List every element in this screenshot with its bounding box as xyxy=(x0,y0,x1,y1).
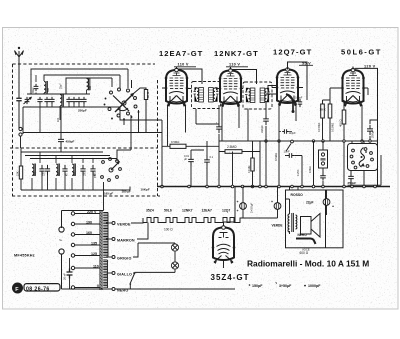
wire band switch bottom drops xyxy=(124,110,139,132)
svg-text:250pF: 250pF xyxy=(78,109,87,113)
electrolytic C 2x50uF unit b xyxy=(274,203,281,210)
wire tone cap branch xyxy=(370,120,378,141)
svg-text:100pF: 100pF xyxy=(295,96,303,100)
wire right column to socket xyxy=(380,155,382,185)
legend 1000pF xyxy=(304,285,306,287)
svg-text:20 nF: 20 nF xyxy=(63,273,67,280)
wire af cap drop xyxy=(206,141,208,187)
coil 500 rf upper second xyxy=(87,79,89,90)
svg-text:GRIGIO: GRIGIO xyxy=(117,256,132,260)
volume potentiometer 0.5M body xyxy=(278,141,280,187)
svg-text:150pF: 150pF xyxy=(252,284,263,288)
svg-text:VERDE: VERDE xyxy=(272,224,283,228)
wire rf top rail xyxy=(27,93,90,95)
capacitor 100pF detector xyxy=(298,99,302,107)
capacitor 450pF padder xyxy=(90,165,95,175)
wire screen cap drop xyxy=(266,94,277,187)
svg-text:35Z4: 35Z4 xyxy=(146,209,154,213)
wire 450pF connections xyxy=(60,107,62,152)
capacitor 39pF antenna coupling xyxy=(34,84,39,91)
svg-text:100: 100 xyxy=(57,117,60,122)
svg-text:GIALLO: GIALLO xyxy=(117,272,132,276)
speaker magnet xyxy=(301,217,312,235)
dashed shield box tuner bottom xyxy=(12,195,160,197)
wire rf nested rail 1 xyxy=(31,69,128,94)
wire tone pot leads xyxy=(322,141,324,174)
primary tap leads xyxy=(75,213,101,215)
wire left column osc xyxy=(20,148,22,190)
output transformer secondary winding xyxy=(296,215,297,229)
speaker voice coil thick lead xyxy=(296,239,316,244)
svg-text:12EA7: 12EA7 xyxy=(202,209,212,213)
svg-text:μF: μF xyxy=(184,157,187,161)
wire line filter xyxy=(69,258,71,289)
svg-text:+: + xyxy=(237,200,239,204)
resistor 0.15M vertical b xyxy=(328,104,332,118)
capacitor 25KpF tone xyxy=(367,125,373,135)
pilot lamp 1 xyxy=(171,244,178,251)
coil L2 antenna secondary xyxy=(60,95,62,106)
IF transformer T1 shield box xyxy=(192,82,221,109)
output transformer T3 primary winding xyxy=(288,214,290,232)
svg-text:ROSSO: ROSSO xyxy=(291,193,304,197)
dashed shield box tuner left xyxy=(12,64,14,196)
wire IF2 secondary drop xyxy=(247,109,249,142)
capacitor rf e xyxy=(71,97,76,104)
heater chain resistive line xyxy=(143,218,243,223)
svg-text:90 Ω: 90 Ω xyxy=(146,92,150,98)
capacitor 33KpF screen xyxy=(263,115,269,125)
terminal T xyxy=(19,133,22,136)
wire 35Z4 plate feed xyxy=(224,187,236,227)
wire af coupling leads xyxy=(285,156,302,187)
capacitor 10nF af coupling xyxy=(287,153,294,158)
svg-text:10KpF: 10KpF xyxy=(141,188,150,192)
mains plug pins xyxy=(59,227,64,232)
resistor 90 ohm grid stopper xyxy=(144,90,147,100)
tube V3 12Q7-GT xyxy=(276,66,300,106)
dashed shield divider vertical xyxy=(157,80,159,196)
svg-text:2×50μF: 2×50μF xyxy=(249,203,253,213)
wire rf row drops below xyxy=(40,104,84,133)
svg-text:50L6: 50L6 xyxy=(164,209,172,213)
wire diode load connections xyxy=(219,141,260,187)
svg-text:160: 160 xyxy=(86,231,92,235)
wire mid rail y141 xyxy=(219,140,378,142)
resistor 0.5M grid leak V1 xyxy=(170,144,186,148)
capacitor 180pF xyxy=(80,165,85,175)
capacitor osc trim xyxy=(62,165,67,175)
electrolytic 22uF xyxy=(323,199,330,206)
wire band switch to grid xyxy=(133,88,146,132)
wire avc line from V3 xyxy=(268,86,277,102)
svg-text:12EA7-GT: 12EA7-GT xyxy=(159,49,203,58)
svg-text:165 pF: 165 pF xyxy=(104,192,113,196)
svg-text:250pF: 250pF xyxy=(348,181,357,185)
wire osc top rails xyxy=(21,152,117,159)
wire V4 top cap feed and right rail xyxy=(353,67,378,187)
capacitor 450pF tuning series xyxy=(58,135,64,145)
capacitor rf c xyxy=(49,97,54,104)
svg-text:+: + xyxy=(237,209,239,213)
coil L6 osc tickler xyxy=(72,164,74,175)
trimmer capacitor antenna input xyxy=(25,97,30,104)
svg-text:500: 500 xyxy=(89,85,92,90)
wire v4 grid return xyxy=(313,141,315,187)
svg-text:110 V: 110 V xyxy=(229,63,240,67)
publisher logo roundel xyxy=(13,283,23,293)
speaker assembly box xyxy=(286,190,344,248)
svg-text:35Z4-GT: 35Z4-GT xyxy=(211,273,250,282)
svg-text:500: 500 xyxy=(47,87,50,92)
svg-text:VERDE: VERDE xyxy=(117,222,131,226)
pilot lamp branch wire xyxy=(135,243,176,272)
resistor 0.15M vertical a xyxy=(321,104,325,118)
svg-text:MARRON: MARRON xyxy=(117,238,135,242)
wire rf upper pair drops xyxy=(36,75,44,94)
capacitor 0.1uF af xyxy=(204,156,210,166)
wire V1 electrode drops xyxy=(168,105,186,146)
svg-text:450pF: 450pF xyxy=(66,139,75,143)
terminal NERO xyxy=(112,288,115,291)
coil 500 antenna primary xyxy=(44,82,46,93)
resistor 22K oscillator xyxy=(19,166,22,179)
publisher logo cartouche xyxy=(24,284,60,291)
wire tuner to transformer feed xyxy=(103,182,105,211)
volume pot wiper xyxy=(291,140,294,143)
terminal GIALLO xyxy=(112,272,115,275)
svg-text:+: + xyxy=(271,200,273,204)
capacitor rf b xyxy=(44,97,49,104)
phono socket rear panel xyxy=(348,144,378,171)
capacitor 10KpF cathode v2 xyxy=(216,123,222,133)
wire long rail y132 xyxy=(23,132,162,134)
svg-text:12Q7-GT: 12Q7-GT xyxy=(273,48,312,57)
wire socket bottom leads xyxy=(348,171,382,187)
wire osc rail drops xyxy=(40,152,93,163)
wire 22uF connections xyxy=(326,190,328,215)
svg-text:12NK7: 12NK7 xyxy=(182,209,193,213)
wire marron run xyxy=(137,223,148,240)
wire taps to terminals column xyxy=(61,211,63,229)
svg-text:135: 135 xyxy=(91,241,97,245)
svg-text:0.25K: 0.25K xyxy=(297,169,300,176)
resistor 400 ohm cathode xyxy=(342,110,346,124)
svg-text:180 pF: 180 pF xyxy=(122,190,132,194)
wire V3 electrode drops xyxy=(279,104,296,141)
capacitor 110pF detector xyxy=(282,129,289,133)
pilot lamp 2 xyxy=(171,262,178,269)
tube V4 50L6-GT xyxy=(341,67,365,107)
wire rf to if stage xyxy=(120,107,162,132)
svg-text:100 Ω: 100 Ω xyxy=(164,228,173,232)
wire rf bottom rail xyxy=(23,106,120,108)
svg-text:110: 110 xyxy=(93,264,99,268)
wire tuning line vertical xyxy=(131,80,133,88)
wire v4 cathode drop xyxy=(343,100,345,110)
wire main bus heavy xyxy=(157,186,390,188)
coil L4 osc primary xyxy=(32,164,34,175)
wire V4 electrode drops xyxy=(361,105,363,141)
capacitor tone bottom xyxy=(320,174,326,181)
wire IF1 secondary drop xyxy=(196,109,219,124)
svg-text:22K: 22K xyxy=(16,171,20,176)
speaker cone xyxy=(311,214,320,238)
svg-text:0.15MΩ: 0.15MΩ xyxy=(331,123,335,132)
capacitor rf d xyxy=(66,97,71,104)
tone potentiometer xyxy=(319,150,328,168)
primary winding stack xyxy=(103,213,108,258)
svg-text:~: ~ xyxy=(59,238,62,244)
wire mains lower lead xyxy=(62,254,116,289)
capacitor 250pF rf xyxy=(81,97,86,104)
svg-text:190: 190 xyxy=(86,220,92,224)
svg-text:0: 0 xyxy=(97,284,99,288)
wire junction antenna to rf rail xyxy=(22,107,24,134)
wire filter cap links xyxy=(243,187,278,203)
terminal MARRON xyxy=(112,238,115,241)
svg-text:600 Ω: 600 Ω xyxy=(300,251,309,255)
band switch S1a rotor and contacts xyxy=(104,88,140,120)
wire tube side stubs xyxy=(162,88,368,101)
svg-text:0.5MΩ: 0.5MΩ xyxy=(274,153,278,161)
svg-text:0.5MΩ: 0.5MΩ xyxy=(171,140,179,144)
svg-text:0.1MΩ: 0.1MΩ xyxy=(248,165,251,173)
primary tap terminals xyxy=(71,212,74,215)
wire osc bottom drop xyxy=(21,187,130,191)
terminal GRIGIO xyxy=(112,256,115,259)
svg-text:1000pF: 1000pF xyxy=(308,284,321,288)
wire socket top stubs xyxy=(352,141,364,144)
wire upper coil2 drops xyxy=(86,78,88,94)
IF transformer T2 shield box xyxy=(243,82,272,109)
capacitor 20nF line filter xyxy=(67,269,73,279)
wire bus left drop xyxy=(161,132,163,187)
svg-text:22μF: 22μF xyxy=(306,201,313,205)
antenna xyxy=(15,51,24,66)
wire terminals down xyxy=(20,136,22,148)
capacitor rf f xyxy=(76,97,81,104)
wire V1 top cap feed xyxy=(177,67,203,84)
wire V3 top feed xyxy=(288,62,308,84)
capacitor 250pF phono xyxy=(348,173,354,182)
svg-text:400 Ω: 400 Ω xyxy=(339,119,343,127)
capacitor osc pad b xyxy=(45,165,50,175)
wire osc mixer link xyxy=(117,120,131,161)
wire v2 cathode bits xyxy=(218,105,220,141)
coil L5 osc secondary xyxy=(56,164,58,175)
svg-text:↯: ↯ xyxy=(275,281,278,285)
svg-text:08 26-76: 08 26-76 xyxy=(26,287,50,293)
svg-text:25KpF: 25KpF xyxy=(371,129,375,138)
wire rf nested rail 3 xyxy=(66,78,112,94)
capacitor 0.01uF coupling xyxy=(188,155,194,165)
terminal A xyxy=(19,127,22,130)
power switch xyxy=(130,274,134,284)
svg-text:33KpF: 33KpF xyxy=(260,125,264,133)
svg-text:0.15MΩ: 0.15MΩ xyxy=(317,123,321,132)
legend 150pF xyxy=(249,284,251,286)
wire OT primary leads xyxy=(286,187,298,235)
speaker box inner partition xyxy=(325,190,327,248)
V3 diode plate lead xyxy=(286,94,293,111)
wire coupling cap drop xyxy=(191,150,204,187)
wire V2 electrode drops xyxy=(222,104,239,141)
svg-text:25pF: 25pF xyxy=(60,83,63,89)
svg-text:12Q7: 12Q7 xyxy=(222,209,230,213)
svg-text:2.5MΩ: 2.5MΩ xyxy=(227,145,237,149)
tube V2 12NK7-GT xyxy=(219,67,243,107)
wire mains bottom run NERO xyxy=(115,288,235,290)
capacitor antenna series xyxy=(16,98,21,100)
svg-text:3÷50μF: 3÷50μF xyxy=(279,284,292,288)
wire verde riser to heater chain xyxy=(131,218,143,223)
svg-text:Radiomarelli - Mod. 10 A 151 M: Radiomarelli - Mod. 10 A 151 M xyxy=(247,259,369,269)
svg-text:+: + xyxy=(332,205,334,209)
wire volume feed xyxy=(232,152,234,187)
svg-text:10KΩ: 10KΩ xyxy=(308,166,312,173)
svg-text:110 V: 110 V xyxy=(178,63,189,67)
wire 35Z4 cathode down xyxy=(223,263,225,268)
svg-text:50L6-GT: 50L6-GT xyxy=(341,48,382,57)
wire rf nested rail 2 xyxy=(44,75,120,88)
resistor 0.1M detector branch xyxy=(251,158,254,171)
svg-text:220 V: 220 V xyxy=(87,210,97,214)
dashed af box xyxy=(10,147,158,149)
wire grid leak connections xyxy=(162,145,219,147)
tube V1 12EA7-GT xyxy=(165,67,189,107)
wire V2 top cap feed xyxy=(231,67,257,84)
svg-text:10nF: 10nF xyxy=(284,150,290,154)
secondary winding stack xyxy=(103,260,107,287)
svg-text:125: 125 xyxy=(91,252,97,256)
output transformer core xyxy=(291,213,293,232)
wire 0.15M drops xyxy=(323,100,331,141)
dashed shield box tuner top xyxy=(13,63,156,65)
svg-text:12NK7-GT: 12NK7-GT xyxy=(214,49,259,58)
transformer core laminations xyxy=(99,211,101,290)
wire giallo run xyxy=(133,272,135,274)
tube V5 35Z4-GT xyxy=(212,225,236,265)
svg-text:39pF: 39pF xyxy=(32,87,35,93)
capacitor osc pad a xyxy=(39,165,44,175)
terminal VERDE xyxy=(112,222,115,225)
svg-text:0.1: 0.1 xyxy=(210,155,214,159)
svg-text:MF455KHz: MF455KHz xyxy=(14,254,35,258)
capacitor rf a xyxy=(37,97,42,104)
wire screen rail v3 xyxy=(306,84,308,100)
power transformer top rail xyxy=(62,210,104,212)
wire osc row bottom bus xyxy=(24,175,130,190)
electrolytic C 2x50uF unit a xyxy=(240,203,247,210)
wire grigio run xyxy=(133,243,175,257)
wire heater chain to filter caps xyxy=(243,210,278,219)
wire antenna lead down xyxy=(18,65,20,128)
band switch S1b xyxy=(101,158,122,182)
